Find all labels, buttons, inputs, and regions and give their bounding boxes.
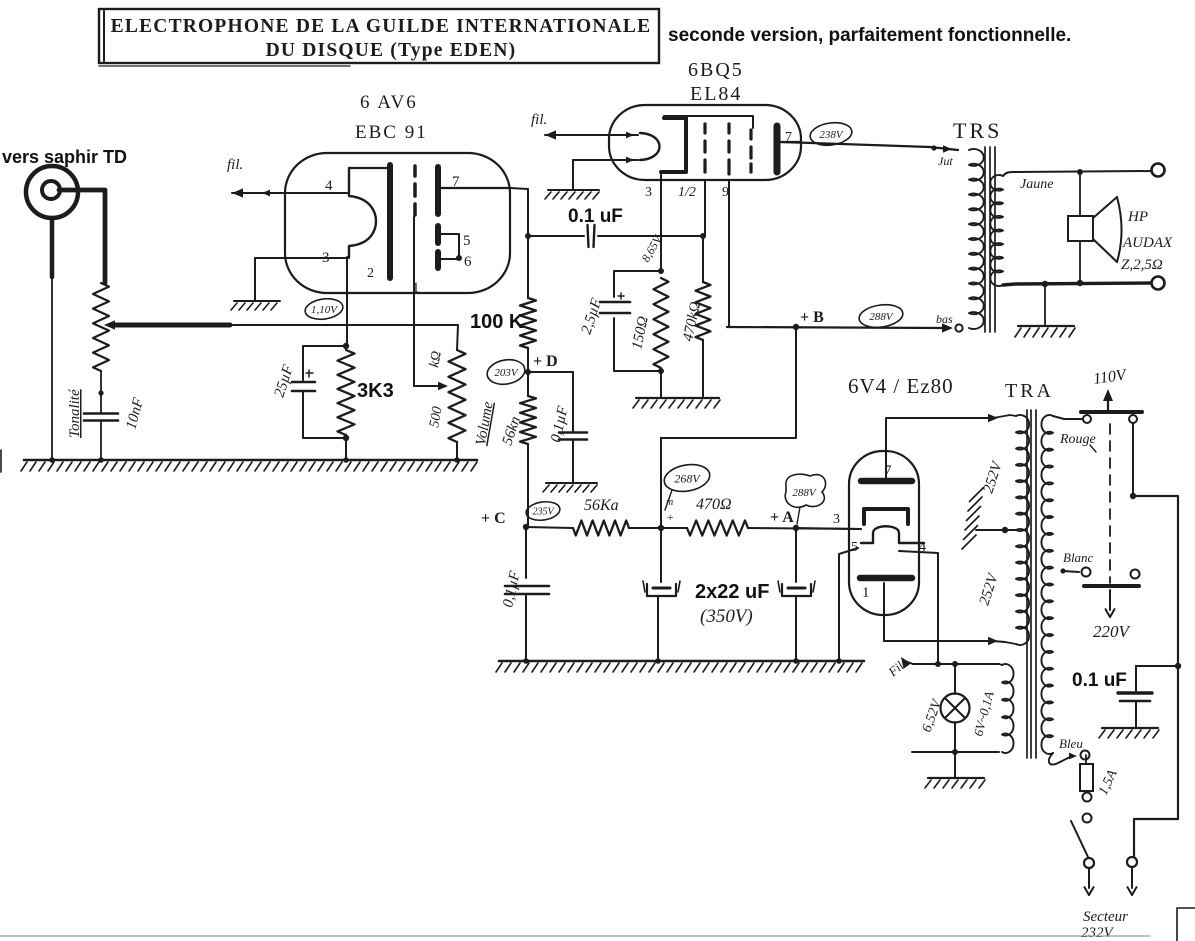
scan tick left margin xyxy=(0,450,2,472)
svg-text:seconde version, parfaitement: seconde version, parfaitement fonctionne… xyxy=(668,25,1071,46)
TRS secondary top wire xyxy=(1003,169,1152,176)
label 6V4/EZ80 xyxy=(848,374,954,398)
label 252V lower xyxy=(977,570,1003,607)
node 268V junction xyxy=(658,525,664,531)
typed label 0.1 uF xyxy=(568,206,623,227)
typed label 3K3 xyxy=(357,380,394,402)
svg-text:470Ω: 470Ω xyxy=(696,496,732,513)
wire +D to decoupling cap xyxy=(528,372,573,431)
pin label 7 xyxy=(452,174,460,190)
6AV6 diode plate with pin 7 xyxy=(438,167,510,214)
wire grid to volume wiper xyxy=(414,382,448,390)
arrow 110V xyxy=(1103,389,1113,411)
label HP xyxy=(1127,209,1148,225)
wire EL84 fil to ground xyxy=(573,157,638,189)
terminal switch top xyxy=(1083,814,1092,823)
svg-text:ELECTROPHONE DE LA GUILDE INTE: ELECTROPHONE DE LA GUILDE INTERNATIONALE xyxy=(111,16,652,37)
label Rouge xyxy=(1059,432,1096,452)
TRA HT center tap xyxy=(976,527,1016,533)
arrow sector left xyxy=(1085,868,1094,895)
svg-text:bas: bas xyxy=(936,312,953,326)
terminal fuse bottom xyxy=(1083,793,1092,802)
TRS secondary bottom wire (thick) xyxy=(1003,280,1152,287)
wire filament row bottom xyxy=(912,749,999,755)
pin label 1 6V4 xyxy=(862,585,870,601)
pin label 4 xyxy=(325,178,333,194)
svg-text:vers saphir TD: vers saphir TD xyxy=(2,147,127,167)
svg-text:5: 5 xyxy=(463,233,471,249)
node +D xyxy=(525,369,531,375)
svg-text:235V: 235V xyxy=(532,507,555,518)
wire EL84 screen pin9 to +B xyxy=(728,180,730,327)
TRS primary bottom terminal xyxy=(955,324,962,331)
resistor 470 ohm filter xyxy=(687,521,861,536)
transformer TRA core xyxy=(1027,410,1036,758)
wire +C down to cap xyxy=(525,527,527,578)
wire filament row top xyxy=(905,661,999,667)
wire 6V4 pin4 down xyxy=(899,551,938,665)
svg-text:DU DISQUE (Type EDEN): DU DISQUE (Type EDEN) xyxy=(266,40,517,61)
svg-text:0.1 uF: 0.1 uF xyxy=(1072,670,1127,691)
wire +B down and left to 268V node xyxy=(661,327,796,438)
pin label 1/2 EL84 xyxy=(678,185,696,200)
node cathode 8,65V xyxy=(638,232,665,274)
label Bleu xyxy=(1059,736,1083,751)
scan line bottom xyxy=(0,935,1150,937)
svg-text:fil.: fil. xyxy=(227,157,243,173)
wire rail across and down xyxy=(1133,496,1178,819)
circled value 268V xyxy=(662,461,712,510)
svg-text:3: 3 xyxy=(645,185,652,200)
svg-text:1,10V: 1,10V xyxy=(311,304,338,316)
wire 6AV6 pin7 to coupling node xyxy=(510,188,528,236)
tube EL84 envelope xyxy=(609,105,801,180)
capacitor 0,1uF decoupling +D xyxy=(559,433,587,483)
label 25uF xyxy=(272,362,298,399)
selector dashed axis xyxy=(1109,424,1111,583)
svg-text:2x22 uF: 2x22 uF xyxy=(695,581,769,603)
tube 6AV6 envelope xyxy=(285,153,510,293)
ground under speaker return xyxy=(1015,326,1075,337)
pin label 4 6V4 xyxy=(919,540,926,555)
EL84 grid1 dashed xyxy=(703,124,706,172)
svg-text:3K3: 3K3 xyxy=(357,380,394,402)
circled value 203V xyxy=(485,357,527,387)
svg-text:Secteur: Secteur xyxy=(1083,909,1128,925)
label 6,3V lamp xyxy=(920,697,946,735)
wire EL84 g1 pin to grid node xyxy=(704,180,706,236)
svg-text:+: + xyxy=(666,510,674,524)
tap Blanc xyxy=(1060,550,1093,577)
svg-text:fil.: fil. xyxy=(531,112,547,128)
transformer TRS primary winding xyxy=(969,149,984,329)
label TRS xyxy=(953,118,1002,143)
svg-text:Jut: Jut xyxy=(938,154,953,168)
transformer TRA HT winding xyxy=(993,415,1029,645)
pin label 3 EL84 xyxy=(645,185,652,200)
wire 268V node vertical xyxy=(660,438,662,528)
node +C xyxy=(523,524,529,530)
capacitor 0.1uF coupling xyxy=(588,225,595,247)
wire TRS secondary to ground xyxy=(1044,284,1046,325)
label EBC91 xyxy=(355,122,428,143)
svg-text:EBC 91: EBC 91 xyxy=(355,122,428,143)
label 500 xyxy=(427,405,445,428)
terminal selector bottom right xyxy=(1131,570,1140,579)
ground under EL84 fil xyxy=(545,190,599,199)
label EL84 xyxy=(690,83,742,105)
terminal circle 110V right xyxy=(1129,415,1137,423)
EL84 pin7 stub xyxy=(781,141,801,143)
capacitor 2,5uF bracket xyxy=(600,271,664,374)
label +C xyxy=(481,510,506,527)
capacitor 22uF no2 xyxy=(778,528,815,661)
svg-text:288V: 288V xyxy=(792,487,817,499)
wire jack hot to tone pot top (thick) xyxy=(59,190,105,283)
resistor 3K3 xyxy=(338,350,355,460)
label 6BQ5 xyxy=(688,59,744,81)
wire pin 3 to ground xyxy=(255,258,349,300)
typed label 0.1 uF mains xyxy=(1072,670,1127,691)
label 0,1uF rotated xyxy=(548,404,571,444)
transformer TRS secondary winding xyxy=(990,175,1003,286)
potentiometer Tonalite xyxy=(93,283,109,393)
terminal switch bottom xyxy=(1084,858,1094,868)
node rail cap junction xyxy=(1175,663,1181,669)
svg-text:6: 6 xyxy=(464,254,472,270)
arrow sector right xyxy=(1128,867,1137,895)
svg-text:+ B: + B xyxy=(800,309,824,326)
transformer TRA primary winding xyxy=(1041,415,1053,754)
capacitor 0.1uF mains xyxy=(1118,693,1152,727)
svg-text:6 AV6: 6 AV6 xyxy=(360,92,418,113)
svg-text:Tonalité: Tonalité xyxy=(67,388,83,438)
circled value 288V at +B xyxy=(858,302,905,330)
label (350V) xyxy=(700,606,753,627)
svg-text:TRA: TRA xyxy=(1005,380,1054,402)
label 252V upper xyxy=(981,458,1007,495)
resistor 470k grid leak xyxy=(696,236,711,397)
arrow 220V xyxy=(1106,590,1115,617)
small marks m plus xyxy=(666,497,674,524)
terminal circle primary top xyxy=(1083,415,1091,423)
node +A xyxy=(793,525,799,531)
circled value 288V at +A xyxy=(785,474,825,524)
label Z 2,5 ohm xyxy=(1121,257,1163,273)
label 110V xyxy=(1092,366,1129,388)
TRA primary bottom curl xyxy=(1049,753,1077,765)
node coupling xyxy=(525,233,531,239)
resistor 56k dropping xyxy=(520,372,536,527)
svg-text:220V: 220V xyxy=(1093,622,1132,641)
label 220V xyxy=(1093,622,1132,641)
terminal sector right xyxy=(1127,857,1137,867)
wire EL84 plate to TRS xyxy=(781,142,958,153)
pin label 7 EL84 xyxy=(785,130,792,145)
pin label 9 EL84 xyxy=(722,185,729,200)
node 3K3 bottom xyxy=(343,435,349,441)
label Tonalite xyxy=(67,388,83,438)
svg-text:HP: HP xyxy=(1127,209,1148,225)
node tone pot bottom xyxy=(98,390,103,395)
capacitor 22uF no1 xyxy=(643,528,680,661)
6V4 plate 1 bar xyxy=(860,575,912,582)
svg-text:1: 1 xyxy=(862,585,870,601)
label kOhm xyxy=(427,350,445,369)
tube 6V4 envelope xyxy=(849,451,919,615)
svg-text:1/2: 1/2 xyxy=(678,185,696,200)
pin label 7 6V4 xyxy=(884,463,892,479)
svg-text:(350V): (350V) xyxy=(700,606,753,627)
wire jack sleeve down (thick then thin) xyxy=(50,218,55,460)
EL84 cathode xyxy=(661,118,686,172)
label 470kn xyxy=(680,300,704,343)
svg-text:Blanc: Blanc xyxy=(1063,550,1094,565)
svg-text:+ C: + C xyxy=(481,510,506,527)
wire fil arrow to pin 4 xyxy=(232,188,349,197)
svg-text:kΩ: kΩ xyxy=(427,350,445,369)
resistor 100K anode load xyxy=(520,236,536,372)
label +D xyxy=(533,353,558,370)
svg-text:100 K: 100 K xyxy=(470,311,524,333)
pin label 2 xyxy=(367,266,374,281)
ground nodes center bus xyxy=(523,658,842,664)
phono jack J1 vers saphir TD xyxy=(26,166,78,218)
terminal fuse top xyxy=(1081,751,1090,760)
svg-text:232V: 232V xyxy=(1081,925,1115,941)
ground junction nodes xyxy=(49,457,460,463)
svg-text:+ A: + A xyxy=(770,509,794,526)
ground bus left xyxy=(21,460,477,471)
capacitor 0,1uF at +C xyxy=(505,586,549,661)
pin label 1 xyxy=(412,280,420,296)
wire speaker - down xyxy=(1079,241,1081,283)
svg-text:203V: 203V xyxy=(494,367,519,379)
label Secteur xyxy=(1083,909,1128,925)
EL84 grid2 dashed xyxy=(727,124,730,174)
label fil. 6AV6 xyxy=(227,157,243,173)
typed label 100 K xyxy=(470,311,524,333)
6AV6 grid dashed line + wire to pin 1 xyxy=(414,166,415,386)
scan mark bottom right corner xyxy=(1177,908,1195,941)
svg-text:9: 9 xyxy=(722,185,729,200)
svg-text:3: 3 xyxy=(833,512,840,527)
wire 6V4 plate7 to TRA top xyxy=(886,414,998,478)
resistor 150 ohm cathode xyxy=(654,278,669,397)
wire rail to mains cap xyxy=(1136,666,1178,691)
6AV6 triode plate bar xyxy=(387,165,393,278)
svg-text:238V: 238V xyxy=(819,129,844,141)
label Volume xyxy=(473,400,496,447)
wire coupling node to cap xyxy=(528,235,584,237)
EL84 internal top wire xyxy=(664,116,753,128)
svg-text:56Ka: 56Ka xyxy=(584,497,619,514)
svg-text:0.1 uF: 0.1 uF xyxy=(568,206,623,227)
pin label 3 6V4 xyxy=(833,512,840,527)
pin label 6 xyxy=(464,254,472,270)
circled value 238V xyxy=(809,120,854,148)
svg-text:268V: 268V xyxy=(674,471,701,485)
svg-text:Bleu: Bleu xyxy=(1059,736,1083,751)
label 6AV6 xyxy=(360,92,418,113)
pilot lamp 6,3V xyxy=(941,664,970,752)
label 56Ka xyxy=(584,497,619,514)
wire rail to sector right xyxy=(1134,819,1178,857)
label 150n xyxy=(629,315,652,351)
label fil. EL84 xyxy=(531,112,547,128)
title box frame xyxy=(99,9,659,66)
speaker terminal top xyxy=(1152,164,1165,177)
wire 6AV6 cathode pin 2 down xyxy=(346,257,348,346)
6V4 cathode xyxy=(864,509,908,524)
svg-text:EL84: EL84 xyxy=(690,83,742,105)
label 470n xyxy=(696,496,732,513)
typed label vers saphir TD xyxy=(2,147,127,167)
wire EL84 cathode down xyxy=(660,172,662,271)
ground under 6AV6 pin 3 xyxy=(231,301,280,310)
label haut xyxy=(938,154,953,168)
speaker HP Audax xyxy=(1068,197,1122,262)
svg-text:Z,2,5Ω: Z,2,5Ω xyxy=(1121,257,1163,273)
label Jaune xyxy=(1020,177,1053,192)
resistor 56k filter xyxy=(526,521,687,536)
ground bus center xyxy=(496,661,864,672)
label 1,5A xyxy=(1096,767,1121,797)
6AV6 diode plates pins 5 6 xyxy=(438,226,462,268)
wire 6V4 pin5 to ground xyxy=(839,548,858,661)
svg-text:AUDAX: AUDAX xyxy=(1122,235,1173,251)
TRA primary top wire xyxy=(1053,416,1082,419)
ground under +D cap xyxy=(543,483,597,492)
wire 6V4 plate1 to TRA bottom xyxy=(884,583,998,645)
transformer TRA filament winding xyxy=(999,664,1014,753)
ground under mains cap xyxy=(1099,728,1159,738)
label TRA xyxy=(1005,380,1054,402)
title text line 1 xyxy=(111,16,652,37)
wire lamp to ground xyxy=(954,752,956,777)
svg-text:Jaune: Jaune xyxy=(1020,177,1053,192)
node cathode to 3K3 top xyxy=(343,343,349,349)
transformer TRS core xyxy=(985,147,995,332)
label +A xyxy=(770,509,794,526)
speaker terminal bottom xyxy=(1152,277,1165,290)
label 2,5uF xyxy=(579,296,606,337)
capacitor 25uF bracket xyxy=(292,346,346,438)
EL84 plate bar xyxy=(774,126,781,172)
wire EL84 fil out with arrow xyxy=(545,130,638,139)
pin label 5 xyxy=(463,233,471,249)
svg-text:+ D: + D xyxy=(533,353,558,370)
label 10nF xyxy=(123,396,147,432)
wire cap to EL84 grid node xyxy=(598,235,703,237)
typed note seconde version xyxy=(668,25,1071,46)
label 0,1uF at +C xyxy=(500,569,523,609)
circled value 235V xyxy=(525,500,561,523)
wire +A to 6V4 cathode xyxy=(796,528,861,529)
EL84 grid3 dashed xyxy=(749,130,752,172)
node rail top xyxy=(1130,493,1136,499)
label bas xyxy=(936,312,953,326)
label 6V 0,1A xyxy=(970,690,996,738)
fuse 1,5A xyxy=(1080,755,1093,791)
wire +B line xyxy=(727,323,953,332)
label +B xyxy=(800,309,824,326)
circled value 1,10V xyxy=(304,296,344,321)
potentiometer Volume 500k xyxy=(449,350,466,460)
pin label 5 6V4 xyxy=(851,540,858,555)
svg-text:7: 7 xyxy=(452,174,460,190)
label 232V xyxy=(1081,925,1115,941)
wiper arrow of tone pot + grid wire (thick segment) xyxy=(104,320,458,350)
6V4 plate 7 bar xyxy=(861,478,912,485)
svg-text:2: 2 xyxy=(367,266,374,281)
svg-text:4: 4 xyxy=(325,178,333,194)
typed label 2x22 uF xyxy=(695,581,769,603)
chassis hatch center tap xyxy=(962,488,984,550)
node EL84 grid junction xyxy=(700,233,706,239)
ground under lamp xyxy=(925,778,985,788)
svg-text:6BQ5: 6BQ5 xyxy=(688,59,744,81)
6AV6 heater-cathode structure xyxy=(349,168,387,257)
wire selector right to rail xyxy=(1132,423,1134,496)
capacitor 10nF xyxy=(84,393,118,460)
svg-text:288V: 288V xyxy=(869,311,894,323)
svg-text:1: 1 xyxy=(412,280,420,296)
label 56kn rotated xyxy=(500,415,524,448)
ground under 150R 470k xyxy=(633,398,720,408)
label Fil arrow xyxy=(885,657,912,680)
voltage selector bottom bar xyxy=(1084,584,1139,588)
svg-text:6V4 / Ez80: 6V4 / Ez80 xyxy=(848,374,954,398)
node +B xyxy=(793,324,799,330)
svg-text:TRS: TRS xyxy=(953,118,1002,143)
EL84 filament arc xyxy=(640,133,660,160)
pin label 3 xyxy=(322,250,330,266)
voltage selector top bar xyxy=(1081,410,1142,414)
title text line 2 xyxy=(266,40,517,61)
wire speaker + down xyxy=(1079,172,1081,216)
switch lever xyxy=(1071,821,1088,857)
6V4 filament xyxy=(861,526,924,543)
svg-text:m: m xyxy=(666,497,673,508)
label AUDAX xyxy=(1122,235,1173,251)
